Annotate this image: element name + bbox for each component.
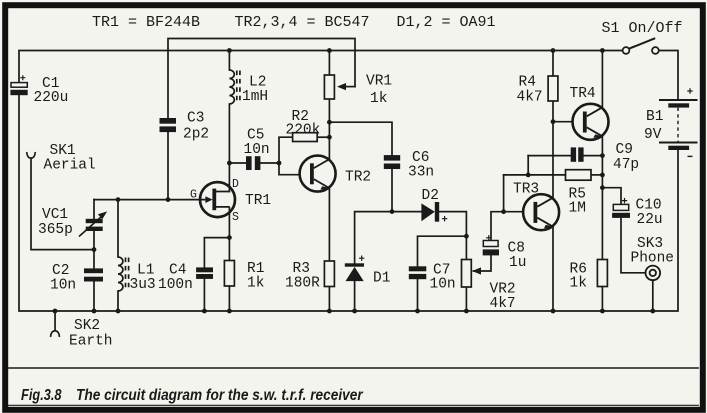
wire C9 to R5 link: [527, 156, 529, 175]
wire C6 branch from VR1 bottom node: [329, 122, 392, 155]
svg-text:3u3: 3u3: [130, 277, 156, 293]
node C10 emitter: [600, 185, 605, 190]
svg-text:Aerial: Aerial: [44, 158, 96, 174]
wire D1 to ground: [354, 281, 356, 311]
svg-text:TR1: TR1: [245, 193, 271, 209]
wire VR1 column from rail: [328, 51, 330, 76]
wire R2 left loop: [279, 137, 293, 163]
svg-text:33n: 33n: [408, 165, 434, 181]
wire top supply rail: [19, 51, 623, 83]
capacitor C9: [571, 147, 584, 161]
transistor TR3: [523, 194, 559, 230]
svg-text:10n: 10n: [430, 277, 456, 293]
svg-text:220k: 220k: [286, 123, 321, 139]
wire C6 bottom to detector line: [391, 169, 393, 212]
wire D2 cathode to VR2 column: [439, 212, 466, 260]
wire TR1 gate line: [94, 199, 207, 201]
wire C10 bottom to SK3: [621, 218, 646, 273]
wire VC1 branch from gate line: [93, 200, 95, 219]
resistor R6: [597, 260, 607, 287]
node ground R3: [327, 309, 332, 314]
capacitor C7: [409, 266, 427, 279]
node top rail R4: [551, 48, 556, 53]
wire TR2 emitter to R3: [328, 188, 330, 261]
wire R5 line B: [504, 174, 566, 176]
node gate line C3: [166, 197, 171, 202]
wire VR2 bottom: [465, 287, 467, 311]
transistor TR2: [300, 156, 336, 192]
wire SK2 stem: [54, 311, 56, 332]
svg-text:22u: 22u: [637, 212, 663, 228]
wire C4 to ground: [203, 279, 205, 311]
svg-text:Fig.3.8: Fig.3.8: [21, 387, 62, 405]
node C5/R2/base: [277, 161, 282, 166]
wire VR2 wiper from C8: [474, 256, 492, 272]
svg-text:1k: 1k: [570, 276, 587, 292]
svg-text:D1,2 = OA91: D1,2 = OA91: [397, 14, 496, 31]
diode D1: [345, 256, 365, 282]
wire TR4 emitter column down to R6: [601, 136, 603, 259]
node ground C2: [92, 309, 97, 314]
wire C7 to ground: [417, 279, 419, 311]
svg-text:TR2,3,4 = BC547: TR2,3,4 = BC547: [235, 14, 370, 31]
svg-text:G: G: [190, 189, 197, 202]
wire L2 to C5 node and TR1 drain: [228, 104, 230, 192]
wire R4 top from rail: [552, 51, 554, 77]
node R5 C9 link: [526, 173, 531, 178]
wire C3 bottom to gate line: [167, 132, 169, 199]
node R2 right: [327, 135, 332, 140]
node ground SK2: [53, 309, 58, 314]
switch S1: [623, 38, 659, 54]
jack SK3 Phone: [646, 266, 661, 281]
svg-text:4k7: 4k7: [490, 296, 516, 312]
capacitor C8 electrolytic: [483, 235, 499, 255]
caption thin bottom line: [8, 404, 699, 406]
resistor R4: [548, 76, 558, 101]
svg-text:180R: 180R: [285, 276, 320, 292]
svg-text:S1 On/Off: S1 On/Off: [602, 20, 683, 37]
node top rail TR4 collector: [600, 48, 605, 53]
node detector C6: [390, 209, 395, 214]
svg-text:C9: C9: [616, 142, 633, 158]
svg-text:D: D: [232, 178, 239, 191]
wire VR1 bottom through R2 node to TR2 collector: [328, 99, 330, 159]
wire R4 bottom to TR3 collector node: [552, 101, 554, 198]
svg-text:S: S: [232, 211, 239, 224]
wire SK1 aerial stem and link to VC1/C2 junction: [31, 158, 94, 249]
wire R3 bottom: [328, 287, 330, 312]
socket SK1: [27, 152, 36, 158]
wire L2/drain column: [228, 51, 230, 71]
node ground C7: [415, 309, 420, 314]
transistor TR1 JFET: [200, 182, 235, 217]
socket SK2: [51, 331, 60, 337]
svg-text:R4: R4: [519, 75, 536, 91]
capacitor C5: [246, 156, 260, 170]
variable capacitor VC1: [79, 211, 107, 236]
resistor R1: [224, 261, 234, 287]
svg-text:Earth: Earth: [69, 334, 113, 350]
svg-text:VC1: VC1: [42, 207, 68, 223]
svg-text:1k: 1k: [370, 91, 387, 107]
svg-text:1mH: 1mH: [242, 89, 268, 105]
node TR1 source C4/R1: [227, 235, 232, 240]
svg-text:D1: D1: [373, 271, 390, 287]
svg-text:4k7: 4k7: [517, 90, 543, 106]
caption separator line: [8, 367, 699, 369]
svg-text:TR1 = BF244B: TR1 = BF244B: [92, 14, 200, 31]
svg-text:1k: 1k: [247, 276, 264, 292]
node C9 emitter: [600, 153, 605, 158]
svg-text:C3: C3: [187, 111, 204, 127]
svg-text:2p2: 2p2: [183, 127, 209, 143]
node ground R1: [227, 309, 232, 314]
diode D2: [421, 202, 447, 222]
wire C4 branch: [204, 238, 229, 268]
node R4 TR4 base: [551, 119, 556, 124]
wire TR3 base: [504, 211, 523, 213]
wire C9 right to TR4 emitter column: [584, 155, 603, 157]
svg-text:Phone: Phone: [631, 251, 675, 267]
svg-text:9V: 9V: [644, 127, 662, 143]
potentiometer VR1: [324, 75, 346, 99]
capacitor C10 electrolytic: [612, 198, 630, 218]
wire SK3 stem to ground: [652, 280, 654, 311]
transistor TR4: [573, 104, 609, 140]
svg-text:10n: 10n: [244, 142, 270, 158]
wire TR4 collector to rail: [601, 51, 603, 108]
svg-text:10n: 10n: [50, 278, 76, 294]
node R5 emitter: [600, 173, 605, 178]
wire node to TR2 base: [279, 163, 300, 175]
wire TR4 base: [553, 121, 573, 123]
wire C8 top to TR3 base node: [491, 212, 504, 241]
wire TR3 emitter to ground: [552, 227, 554, 311]
svg-text:220u: 220u: [34, 90, 69, 106]
svg-text:TR2: TR2: [345, 170, 371, 186]
wire R1 top: [228, 238, 230, 261]
wire bottom ground rail: [19, 95, 678, 311]
node TR3 base: [501, 209, 506, 214]
node ground SK3: [650, 309, 655, 314]
node VC1/C2/aerial: [92, 247, 97, 252]
svg-text:TR4: TR4: [570, 86, 596, 102]
battery B1: [659, 88, 698, 156]
capacitor C3: [160, 118, 177, 132]
node ground D1: [352, 309, 357, 314]
resistor R2: [293, 133, 318, 142]
node ground C4: [202, 309, 207, 314]
capacitor C6: [384, 155, 400, 169]
inductor L1: [118, 257, 129, 291]
wire top rail right segment to battery: [659, 51, 678, 100]
resistor R3: [324, 261, 334, 287]
wire C10 branch from emitter column: [602, 188, 621, 205]
svg-text:1u: 1u: [509, 255, 526, 271]
wire upper feedback line C3 to VR1 wiper: [168, 39, 355, 119]
node ground R6: [600, 309, 605, 314]
wire R5 right to TR4 emitter column: [591, 174, 602, 176]
wire TR1 source down to C4/R1 node: [228, 207, 230, 237]
svg-text:B1: B1: [646, 109, 663, 125]
svg-text:SK2: SK2: [74, 318, 100, 334]
svg-text:47p: 47p: [613, 157, 639, 173]
resistor R5: [566, 170, 592, 181]
wire R1 bottom: [228, 286, 230, 311]
svg-text:VR1: VR1: [366, 74, 392, 90]
capacitor C2: [84, 268, 103, 281]
capacitor C4: [196, 267, 213, 279]
wire L1 bottom: [117, 291, 119, 311]
wire detector line left and D1 drop: [355, 212, 422, 264]
node top rail L2: [227, 48, 232, 53]
wire C7 branch: [418, 236, 467, 266]
node ground TR3 emitter: [551, 309, 556, 314]
svg-text:100n: 100n: [158, 277, 193, 293]
svg-text:365p: 365p: [38, 222, 73, 238]
potentiometer VR2: [462, 260, 482, 288]
node gate line L1: [116, 197, 121, 202]
wire R2 right: [317, 136, 329, 138]
wire C5 left: [229, 162, 246, 164]
node VR1 bottom C6: [327, 120, 332, 125]
capacitor C1 electrolytic: [10, 75, 27, 95]
wire C2 to ground rail: [93, 282, 95, 312]
wire R6 bottom: [601, 287, 603, 312]
wire VR1 wiper arrow lead: [346, 86, 356, 88]
wire VC1 to C2: [93, 231, 95, 268]
wire R5 leg down to base node: [503, 175, 505, 212]
svg-text:The circuit diagram for the s.: The circuit diagram for the s.w. t.r.f. …: [76, 387, 364, 404]
svg-text:1M: 1M: [569, 201, 586, 217]
node top rail VR1: [327, 48, 332, 53]
wire C9 line A: [528, 155, 571, 157]
wire L1 top: [117, 200, 119, 257]
inductor L2: [229, 70, 240, 104]
node ground VR2: [464, 309, 469, 314]
svg-text:TR3: TR3: [513, 182, 539, 198]
node ground L1: [116, 309, 121, 314]
node C7 VR2: [464, 234, 469, 239]
svg-text:D2: D2: [422, 188, 439, 204]
wire C5 right to node: [260, 162, 279, 164]
node drain C5: [227, 161, 232, 166]
